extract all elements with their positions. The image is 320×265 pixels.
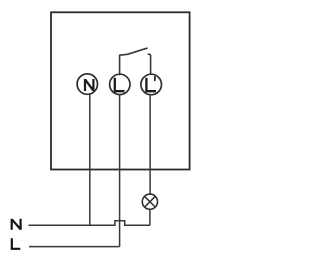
switch fixed contact above L'	[148, 54, 150, 73]
wire N terminal to N supply line	[89, 94, 91, 225]
terminal N	[77, 74, 97, 94]
N supply line with hop over L wire	[29, 221, 150, 226]
device enclosure box	[51, 12, 190, 169]
terminal L'	[141, 74, 162, 95]
apostrophe of L'	[154, 76, 156, 81]
label N (supply)	[12, 219, 21, 230]
terminal L	[110, 74, 130, 94]
wire lamp bottom to N supply line	[149, 209, 151, 225]
wire L' terminal down to lamp	[149, 94, 151, 194]
lamp	[142, 194, 157, 209]
wire L terminal down to L supply line	[119, 94, 121, 246]
L supply line	[29, 246, 120, 248]
switch blade from L	[120, 48, 147, 74]
label L (supply)	[12, 238, 20, 249]
